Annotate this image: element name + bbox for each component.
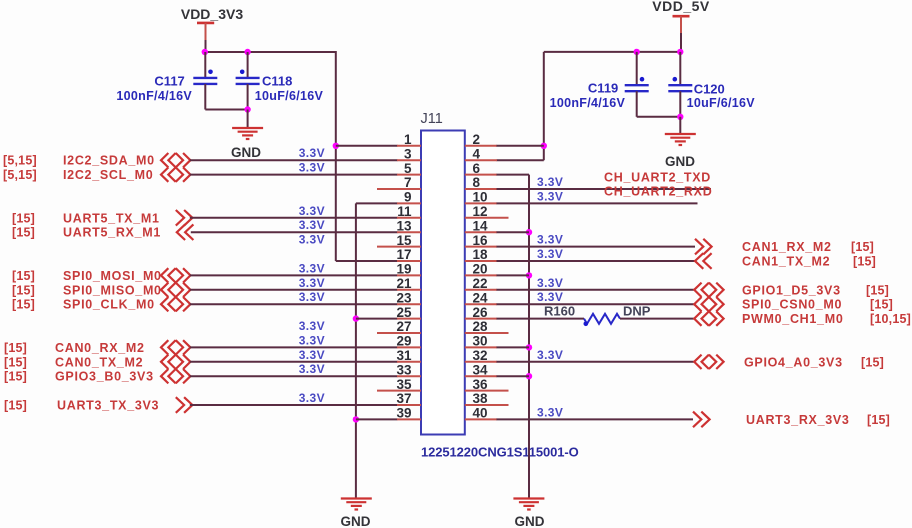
wire pin 34 to GND: [465, 375, 497, 377]
wire pin 3 I2C2_SDA_M0: [190, 159, 398, 161]
wire pin 30 to GND: [465, 346, 497, 348]
svg-text:GND: GND: [341, 514, 371, 528]
svg-text:[5,15]: [5,15]: [3, 168, 37, 182]
off-page connector CAN1_TX_M2 (in): [695, 253, 703, 269]
wire pin 11 UART5_TX_M1: [190, 217, 398, 219]
svg-text:32: 32: [473, 348, 488, 363]
svg-text:100nF/4/16V: 100nF/4/16V: [550, 96, 626, 110]
svg-text:3.3V: 3.3V: [537, 175, 563, 189]
capacitor C117 bottom lead: [204, 84, 206, 110]
svg-text:11: 11: [397, 204, 412, 219]
off-page connector UART3_RX_3V3 (out): [693, 412, 701, 428]
node junction right caps bottom: [677, 114, 683, 120]
svg-text:GND: GND: [515, 514, 545, 528]
wire pin 40 UART3_RX_3V3: [465, 418, 497, 420]
svg-text:25: 25: [396, 305, 412, 320]
wire caps to GND: [247, 110, 249, 129]
svg-text:8: 8: [473, 175, 481, 190]
svg-text:14: 14: [473, 218, 489, 233]
svg-text:34: 34: [473, 362, 489, 377]
off-page connector CAN0_RX_M2 (bidir): [161, 340, 168, 354]
node junction VDD_5V at C120: [677, 49, 683, 55]
off-page connector UART5_TX_M1 (out): [176, 210, 184, 226]
wire pin 17 to VDD_3V3: [336, 260, 398, 262]
svg-text:[15]: [15]: [12, 283, 35, 297]
wire C119-C120 bottom join: [637, 116, 681, 118]
node junction caps bottom: [244, 106, 250, 112]
svg-text:3.3V: 3.3V: [299, 218, 325, 232]
wire VDD_3V3 rail: [205, 51, 336, 53]
svg-text:[15]: [15]: [4, 355, 27, 369]
svg-text:SPI0_MISO_M0: SPI0_MISO_M0: [63, 283, 162, 297]
svg-text:[10,15]: [10,15]: [870, 312, 911, 326]
svg-text:[15]: [15]: [12, 269, 35, 283]
ground symbol under C118: [232, 127, 263, 129]
node junction GND at pin 25: [353, 315, 359, 321]
svg-text:[15]: [15]: [4, 399, 27, 413]
svg-text:23: 23: [396, 290, 412, 305]
wire GND right vertical: [528, 175, 530, 498]
svg-text:3.3V: 3.3V: [299, 261, 325, 275]
capacitor C118 top lead: [247, 52, 249, 78]
connector J11 body: [421, 131, 465, 435]
wire pin 14 to GND: [465, 231, 497, 233]
ground symbol bottom left: [341, 497, 372, 499]
wire pin 32 GPIO4_A0_3V3: [465, 361, 497, 363]
svg-text:3.3V: 3.3V: [299, 233, 325, 247]
svg-text:UART3_TX_3V3: UART3_TX_3V3: [57, 399, 159, 413]
pin 12 no-connect stub: [465, 217, 509, 219]
svg-text:C119: C119: [588, 81, 618, 96]
wire pin 2 to VDD_5V: [465, 145, 497, 147]
wire right caps to GND: [679, 117, 681, 134]
wire VDD_3V3 stub: [205, 23, 207, 40]
svg-text:3.3V: 3.3V: [299, 348, 325, 362]
svg-text:3.3V: 3.3V: [299, 146, 325, 160]
svg-text:I2C2_SDA_M0: I2C2_SDA_M0: [63, 154, 155, 168]
off-page connector UART5_RX_M1 (in): [177, 224, 185, 240]
svg-text:[15]: [15]: [12, 298, 35, 312]
wire pin 37 UART3_TX_3V3: [190, 404, 398, 406]
svg-text:19: 19: [396, 262, 411, 277]
svg-text:40: 40: [473, 406, 488, 421]
wire R160 to PWM0_CH1_M0: [620, 318, 694, 320]
svg-text:SPI0_CSN0_M0: SPI0_CSN0_M0: [742, 298, 842, 312]
svg-text:3.3V: 3.3V: [537, 405, 563, 419]
svg-text:GND: GND: [665, 154, 695, 169]
svg-text:12251220CNG1S115001-O: 12251220CNG1S115001-O: [421, 445, 579, 460]
capacitor C118 plates: [236, 77, 260, 79]
wire pin 1 to VDD_3V3: [336, 145, 398, 147]
wire pin 13 UART5_RX_M1: [191, 231, 398, 233]
svg-text:SPI0_MOSI_M0: SPI0_MOSI_M0: [63, 269, 162, 283]
capacitor C118 pin-1 dot: [240, 70, 245, 75]
svg-text:GPIO3_B0_3V3: GPIO3_B0_3V3: [55, 370, 154, 384]
svg-text:[15]: [15]: [4, 370, 27, 384]
svg-text:VDD_3V3: VDD_3V3: [181, 6, 243, 22]
node junction GND at pin 34: [526, 373, 532, 379]
off-page connector UART3_TX_3V3 (out): [176, 397, 184, 413]
svg-text:3.3V: 3.3V: [299, 333, 325, 347]
wire pin 16 CAN1_RX_M2: [465, 246, 497, 248]
resistor R160 pin-1 dot: [584, 322, 589, 327]
svg-text:30: 30: [473, 334, 488, 349]
off-page connector GPIO3_B0_3V3 (bidir): [161, 369, 168, 383]
wire pin 20 to GND: [465, 274, 497, 276]
svg-text:3.3V: 3.3V: [299, 276, 325, 290]
wire VDD_5V vertical to pins 2+4: [543, 52, 545, 160]
svg-text:2: 2: [473, 132, 481, 147]
off-page connector SPI0_MOSI_M0 (bidir): [161, 268, 168, 282]
wire pin 19 SPI0_MOSI_M0: [190, 274, 398, 276]
capacitor C119 plates: [625, 84, 649, 86]
node junction VDD_3V3 at C117: [202, 49, 208, 55]
svg-text:VDD_5V: VDD_5V: [652, 0, 710, 14]
capacitor C119 top lead: [636, 52, 638, 85]
node junction GND at pin 20: [526, 272, 532, 278]
svg-text:CAN1_TX_M2: CAN1_TX_M2: [742, 255, 830, 269]
wire pin 8 CH_UART2_TXD: [465, 188, 497, 190]
resistor R160 zigzag: [584, 314, 620, 324]
svg-text:38: 38: [473, 391, 489, 406]
wire pin 9 to GND: [356, 202, 398, 204]
capacitor C117 plates: [193, 77, 217, 79]
wire GND left vertical: [355, 203, 357, 497]
svg-text:15: 15: [396, 233, 412, 248]
wire VDD_5V stub: [680, 16, 682, 33]
pin 27 no-connect stub: [377, 332, 421, 334]
svg-text:3.3V: 3.3V: [537, 233, 563, 247]
svg-text:10uF/6/16V: 10uF/6/16V: [687, 96, 756, 110]
off-page connector CAN0_TX_M2 (bidir): [161, 355, 168, 369]
svg-text:5: 5: [404, 161, 412, 176]
svg-text:CH_UART2_RXD: CH_UART2_RXD: [604, 185, 712, 199]
svg-text:3.3V: 3.3V: [299, 161, 325, 175]
svg-text:39: 39: [396, 406, 411, 421]
power symbol VDD_5V bar: [673, 15, 690, 18]
svg-text:37: 37: [396, 391, 411, 406]
svg-text:[5,15]: [5,15]: [3, 154, 37, 168]
svg-text:CAN0_RX_M2: CAN0_RX_M2: [55, 341, 145, 355]
svg-text:R160: R160: [544, 303, 575, 318]
svg-text:3.3V: 3.3V: [537, 276, 563, 290]
svg-text:GND: GND: [231, 145, 261, 160]
svg-text:10: 10: [473, 190, 488, 205]
svg-text:PWM0_CH1_M0: PWM0_CH1_M0: [742, 312, 843, 326]
capacitor C117 pin-1 dot: [208, 70, 213, 75]
svg-text:3.3V: 3.3V: [537, 189, 563, 203]
wire pin 6 to GND: [465, 174, 497, 176]
ground symbol under C120: [665, 133, 696, 135]
capacitor C118 bottom lead: [247, 84, 249, 110]
svg-text:DNP: DNP: [623, 303, 651, 318]
wire pin 5 I2C2_SCL_M0: [190, 174, 398, 176]
off-page connector SPI0_CSN0_M0 (bidir): [694, 297, 701, 311]
svg-text:[15]: [15]: [851, 240, 874, 254]
svg-text:10uF/6/16V: 10uF/6/16V: [255, 89, 324, 103]
pin 35 no-connect stub: [377, 390, 421, 392]
svg-text:3.3V: 3.3V: [299, 362, 325, 376]
wire VDD_3V3 vertical to pins 1+17: [335, 51, 337, 261]
wire C117-C118 bottom join: [205, 109, 247, 111]
node junction GND at pin 14: [526, 229, 532, 235]
svg-text:GPIO4_A0_3V3: GPIO4_A0_3V3: [744, 355, 843, 369]
capacitor C120 bottom lead: [679, 91, 681, 117]
svg-text:CAN0_TX_M2: CAN0_TX_M2: [55, 355, 143, 369]
node junction VDD_3V3 at C118: [244, 49, 250, 55]
svg-text:[15]: [15]: [867, 413, 890, 427]
svg-text:UART5_RX_M1: UART5_RX_M1: [63, 226, 161, 240]
node junction GND at pin 39: [353, 416, 359, 422]
capacitor C119 pin-1 dot: [640, 77, 645, 82]
svg-text:4: 4: [473, 146, 481, 161]
svg-text:3.3V: 3.3V: [299, 319, 325, 333]
capacitor C120 top lead: [679, 52, 681, 85]
node junction VDD_3V3 at pin 1 row: [333, 143, 339, 149]
svg-text:3.3V: 3.3V: [299, 204, 325, 218]
wire VDD_5V corner to pin 4: [497, 159, 544, 161]
off-page connector GPIO1_D5_3V3 (bidir): [694, 283, 701, 297]
svg-text:I2C2_SCL_M0: I2C2_SCL_M0: [63, 168, 153, 182]
pin 4 stub: [465, 159, 497, 161]
svg-text:3.3V: 3.3V: [537, 247, 563, 261]
wire pin 26 to R160: [465, 318, 497, 320]
svg-text:UART5_TX_M1: UART5_TX_M1: [63, 211, 160, 225]
svg-text:C118: C118: [262, 74, 292, 89]
wire pin 29 CAN0_RX_M2: [190, 346, 398, 348]
svg-text:[15]: [15]: [4, 341, 27, 355]
svg-text:6: 6: [473, 161, 481, 176]
capacitor C119 bottom lead: [636, 91, 638, 117]
svg-text:12: 12: [473, 204, 488, 219]
node junction GND at pin 30: [526, 344, 532, 350]
svg-text:29: 29: [396, 334, 411, 349]
wire pin 22 GPIO1_D5_3V3: [465, 289, 497, 291]
svg-text:UART3_RX_3V3: UART3_RX_3V3: [746, 413, 850, 427]
pin 15 no-connect stub: [377, 246, 421, 248]
svg-text:24: 24: [473, 290, 489, 305]
wire pin 24 SPI0_CSN0_M0: [465, 303, 497, 305]
off-page connector I2C2_SDA_M0 (bidir): [161, 153, 168, 167]
svg-text:[15]: [15]: [12, 226, 35, 240]
off-page connector SPI0_MISO_M0 (bidir): [161, 283, 168, 297]
svg-text:22: 22: [473, 276, 488, 291]
pin 7 no-connect stub: [377, 188, 421, 190]
svg-text:[15]: [15]: [853, 255, 876, 269]
svg-text:3: 3: [404, 146, 412, 161]
svg-text:3.3V: 3.3V: [299, 290, 325, 304]
svg-text:1: 1: [404, 132, 412, 147]
svg-text:100nF/4/16V: 100nF/4/16V: [116, 89, 192, 103]
wire pin 31 CAN0_TX_M2: [190, 361, 398, 363]
svg-text:CAN1_RX_M2: CAN1_RX_M2: [742, 240, 832, 254]
off-page connector I2C2_SCL_M0 (bidir): [161, 167, 168, 181]
off-page connector PWM0_CH1_M0 (bidir): [694, 311, 701, 325]
off-page connector CAN1_RX_M2 (out): [695, 239, 703, 255]
svg-text:13: 13: [396, 218, 412, 233]
svg-text:36: 36: [473, 377, 489, 392]
svg-text:33: 33: [396, 362, 412, 377]
svg-text:20: 20: [473, 262, 488, 277]
node junction VDD_5V at pin 2 row: [541, 143, 547, 149]
svg-text:3.3V: 3.3V: [537, 290, 563, 304]
svg-text:21: 21: [396, 276, 412, 291]
svg-text:3.3V: 3.3V: [299, 391, 325, 405]
svg-text:35: 35: [396, 377, 412, 392]
capacitor C120 plates: [668, 84, 692, 86]
svg-text:9: 9: [404, 190, 412, 205]
pin 38 no-connect stub: [465, 404, 509, 406]
ground symbol bottom right: [513, 497, 544, 499]
svg-text:28: 28: [473, 319, 489, 334]
svg-text:CH_UART2_TXD: CH_UART2_TXD: [604, 171, 711, 185]
wire pin 23 SPI0_CLK_M0: [190, 303, 398, 305]
wire VDD_5V rail: [544, 51, 681, 53]
svg-text:26: 26: [473, 305, 489, 320]
svg-text:16: 16: [473, 233, 489, 248]
svg-text:J11: J11: [421, 111, 443, 127]
svg-text:GPIO1_D5_3V3: GPIO1_D5_3V3: [742, 283, 841, 297]
svg-text:C117: C117: [154, 74, 184, 89]
capacitor C117 top lead: [204, 52, 206, 78]
svg-text:C120: C120: [694, 82, 725, 97]
svg-text:[15]: [15]: [861, 355, 884, 369]
pin 36 no-connect stub: [465, 390, 509, 392]
wire pin 25 to GND: [356, 318, 398, 320]
svg-text:3.3V: 3.3V: [537, 348, 563, 362]
svg-text:[15]: [15]: [866, 283, 889, 297]
svg-text:27: 27: [396, 319, 411, 334]
wire pin 10 CH_UART2_RXD: [465, 202, 497, 204]
svg-text:17: 17: [396, 247, 411, 262]
svg-text:[15]: [15]: [870, 298, 893, 312]
capacitor C120 pin-1 dot: [673, 77, 678, 82]
svg-text:SPI0_CLK_M0: SPI0_CLK_M0: [63, 298, 155, 312]
node junction VDD_5V at C119: [634, 49, 640, 55]
pin 28 no-connect stub: [465, 332, 509, 334]
svg-text:18: 18: [473, 247, 489, 262]
wire pin 39 to GND: [356, 418, 398, 420]
wire pin 21 SPI0_MISO_M0: [190, 289, 398, 291]
svg-text:31: 31: [396, 348, 412, 363]
svg-text:7: 7: [404, 175, 412, 190]
off-page connector SPI0_CLK_M0 (bidir): [161, 297, 168, 311]
wire pin 33 GPIO3_B0_3V3: [190, 375, 398, 377]
wire pin 18 CAN1_TX_M2: [465, 260, 497, 262]
off-page connector GPIO4_A0_3V3 (bidir): [694, 355, 701, 369]
power symbol VDD_3V3 bar: [197, 22, 214, 25]
svg-text:[15]: [15]: [12, 211, 35, 225]
